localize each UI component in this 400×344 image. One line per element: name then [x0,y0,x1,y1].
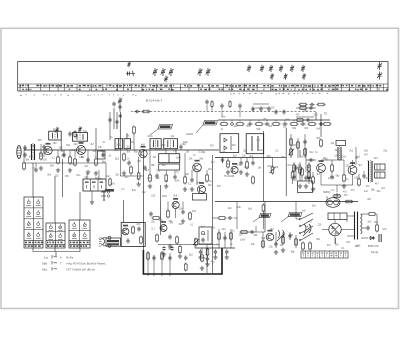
capacitor C79 [108,117,111,122]
svg-text:6k8: 6k8 [173,195,177,197]
ground [148,184,152,188]
resistor R41 [302,242,305,251]
stub [227,158,229,162]
capacitor C74 [149,211,152,216]
svg-text:10k: 10k [251,244,256,246]
capacitor C33 [190,177,193,182]
wire emitters [321,184,353,186]
svg-text:25u: 25u [377,191,382,193]
svg-text:8p2: 8p2 [115,158,120,160]
wire [347,215,355,217]
resistor R43 [320,139,323,148]
switch wafer arcs [303,224,311,236]
vol arrow [193,239,199,245]
svg-text:1n: 1n [221,129,224,131]
svg-text:5k6: 5k6 [162,165,166,167]
resistor R1 [40,152,43,161]
wire [306,159,316,161]
svg-text:68p: 68p [298,169,303,171]
wire right top [320,114,322,137]
svg-text:3n9: 3n9 [192,211,197,213]
capacitor C40 [282,122,287,125]
svg-text:150: 150 [53,143,58,145]
svg-text:4k7: 4k7 [358,165,362,167]
trimmer C13 [290,65,294,72]
transistor T10 [266,230,274,241]
wire [155,149,166,151]
capacitor C70 [294,165,297,170]
capacitor C71 [303,139,306,144]
svg-text:2n2: 2n2 [288,165,293,167]
capacitor C69 [366,225,369,230]
capacitor C56 [201,237,204,242]
resistor R76 [211,100,213,108]
stub [336,185,338,192]
stub [201,248,203,254]
resistor R31 [140,236,143,245]
svg-text:12k: 12k [211,228,216,230]
stub [302,120,304,122]
stub [206,105,208,112]
resistor R66 [218,232,221,241]
stub [74,150,76,157]
svg-text:CT/T TuAbNe bAT dRy air: CT/T TuAbNe bAT dRy air [66,269,95,272]
svg-text:8p2: 8p2 [189,254,194,256]
stub [355,160,357,165]
svg-text:0,1: 0,1 [341,248,345,250]
wire [236,202,238,230]
transistor pinout chart 3 [69,220,90,248]
svg-text:1n: 1n [346,179,349,181]
svg-text:12k: 12k [242,155,247,157]
stub [312,172,314,177]
svg-text:8p2: 8p2 [248,209,253,211]
stub [169,253,171,276]
stub [249,120,251,122]
transistor T2 AF117 [77,142,86,154]
wire stage3 down [142,150,144,250]
svg-text:8p2: 8p2 [162,145,167,147]
trimmer C7 [198,68,203,76]
capacitor C86 [112,101,115,106]
svg-text:2n2: 2n2 [244,167,249,169]
capacitor C23 [42,144,45,149]
legend row2 tick [52,261,57,265]
stub [24,145,26,150]
stub [182,202,184,210]
svg-text:12k: 12k [283,127,288,129]
stub [275,120,277,122]
svg-text:4k7: 4k7 [85,166,89,168]
svg-text:6k8: 6k8 [179,224,183,226]
wire volume feed [211,155,213,273]
stub [255,226,257,232]
trimmer C85 [118,97,122,104]
trimmer C17 [302,73,306,79]
svg-text:10k: 10k [169,222,174,224]
svg-text:4k7: 4k7 [375,183,379,185]
svg-text:47p: 47p [351,190,356,192]
resistor R38 [282,236,285,245]
svg-text:12k: 12k [186,152,191,154]
switch strip mid line [18,87,388,89]
stub [175,209,177,218]
stub [102,150,104,157]
svg-text:0,1: 0,1 [257,140,261,142]
wire [119,105,121,112]
resistor R26 [317,103,326,106]
svg-text:470: 470 [210,145,215,147]
svg-text:3n9: 3n9 [304,128,309,130]
transistor T1 AF116 [44,143,52,155]
trimmer C10 [260,65,264,72]
ground [205,262,209,266]
svg-text:10k: 10k [237,207,242,209]
capacitor C81 AGC [134,110,139,113]
svg-text:100n: 100n [176,158,182,160]
volume pot arrow [270,167,276,173]
capacitor C43 [259,106,262,111]
jack panel text [107,240,119,242]
resistor R6 [95,158,98,167]
transistor T6 [231,163,238,174]
svg-text:4k7: 4k7 [211,162,215,164]
switch wafer arcs 2 [277,230,284,241]
resistor R4 [23,162,26,171]
trimmer C87 [78,126,82,132]
capacitor C60 [225,249,228,254]
stub [95,150,97,157]
stub [223,120,225,122]
svg-text:2n2: 2n2 [125,177,130,179]
svg-text:3n9: 3n9 [302,210,307,212]
wire down [285,160,287,196]
svg-text:220: 220 [317,225,322,227]
svg-text:0,1: 0,1 [275,150,279,152]
svg-text:2n2: 2n2 [173,151,178,153]
stub [222,158,224,164]
voltage selector switch [299,213,313,241]
resistor R48 [345,200,354,203]
jack 4 symbol [99,244,111,248]
capacitor C34 [179,144,182,149]
diode detector box [98,151,106,159]
resistor R19 [255,123,264,126]
stub [218,229,220,248]
resistor R20 [272,123,281,126]
stub [367,160,369,161]
neutralizing network [193,194,207,201]
wire [326,196,328,202]
transistor T9 driver [160,221,167,231]
svg-text:3n9: 3n9 [29,156,34,158]
wire chain [297,138,299,158]
svg-text:10k: 10k [331,143,336,145]
stub [240,158,242,161]
resistor R14 [227,160,230,169]
svg-text:4k7: 4k7 [90,144,94,146]
svg-text:220: 220 [222,229,227,231]
stub [211,107,213,112]
svg-text:5k6: 5k6 [38,140,42,142]
svg-text:Yerlg. PO-M Onal. Bij ieOer Pa: Yerlg. PO-M Onal. Bij ieOer PaneeL [66,263,106,266]
svg-text:B250 C75: B250 C75 [368,245,379,248]
svg-text:1k: 1k [230,244,233,246]
capacitor C72 [292,174,295,179]
resistor R73 [262,204,265,213]
svg-text:39k: 39k [151,165,156,167]
svg-text:12k: 12k [126,136,131,138]
wire [109,112,111,140]
component symbol table [301,251,348,258]
IF transformer S2 [73,133,88,142]
padder pair C2 [126,71,135,76]
component value labels [25,108,387,264]
svg-text:6k8: 6k8 [254,235,258,237]
wire drive rail [321,159,344,161]
wire [113,108,115,129]
speaker terminal box 1 [375,164,386,170]
capacitor C42b [318,122,323,125]
wire [308,162,310,181]
wire filter out [103,191,105,199]
svg-text:4: 4 [99,244,101,248]
svg-text:4k7: 4k7 [270,229,274,231]
stub [119,139,121,150]
resistor R35 volume pot [195,238,198,247]
ground [68,168,72,172]
stub [343,160,345,175]
svg-text:2k2: 2k2 [234,126,238,128]
wire [160,185,162,235]
svg-text:150: 150 [354,178,359,180]
svg-text:470: 470 [274,167,279,169]
svg-text:8p2: 8p2 [233,155,238,157]
capacitor C39 [264,122,269,125]
wire [341,229,354,231]
resistor R33 [176,236,179,245]
wire [175,150,177,154]
capacitor C54 [168,234,171,239]
svg-text:100n: 100n [162,196,168,198]
driver transformer S6 [338,146,341,161]
svg-text:A: A [60,256,62,260]
wire osc feed [119,112,121,139]
svg-text:T5 AC125: T5 AC125 [224,175,235,178]
switch strip row2 contact labels [22,89,387,91]
wire [355,147,357,160]
stub [221,109,223,118]
trimmer C5 [169,68,174,76]
svg-text:220: 220 [314,114,319,116]
lower rail left [24,162,106,164]
pot arrow R56 [289,149,295,155]
capacitor C37 [251,160,254,165]
svg-text:150: 150 [43,159,48,161]
driver transformer label [336,141,346,146]
capacitor C52 [137,226,140,231]
svg-text:1k: 1k [165,181,168,183]
wire top link [253,103,269,105]
wire to legend [62,159,64,197]
pickup jack symbols [101,191,110,197]
stub [130,173,132,176]
capacitor C75 [152,255,155,260]
svg-text:4k7: 4k7 [153,157,157,159]
stub [352,174,354,185]
svg-text:12k: 12k [171,136,176,138]
wire [103,190,105,200]
DIN socket symbol [99,238,105,245]
svg-text:68p: 68p [371,189,376,191]
switch contact row1 [231,123,234,126]
ratio detector can [246,134,264,154]
FM IF transformer S3 [150,139,161,149]
resistor R29 [189,212,192,221]
capacitor C26 [86,157,89,162]
resistor R28 [167,210,170,219]
capacitor C55 [184,255,187,260]
mains transformer primary label [328,213,347,220]
stub [184,153,186,177]
resistor R25 [299,103,308,106]
stub [206,170,208,175]
stub [284,120,286,122]
ground [90,200,94,204]
oscillator coil L3 [115,139,123,149]
stub [87,157,89,163]
trimmer C1 [127,62,130,68]
svg-text:10k: 10k [98,147,103,149]
wire [255,107,270,109]
resistor R58 [304,148,307,157]
svg-text:470: 470 [366,186,371,188]
resistor R78 [229,100,231,108]
resistor R75 [201,254,204,263]
svg-text:4k7: 4k7 [327,245,331,247]
capacitor C27 [101,152,104,157]
svg-text:150: 150 [65,176,70,178]
svg-text:1n: 1n [315,152,318,154]
svg-text:25u: 25u [76,175,81,177]
capacitor C21 [23,145,26,150]
resistor R62 [152,217,161,220]
ground [164,184,168,188]
wire [361,237,368,239]
svg-text:0,1: 0,1 [151,229,155,231]
scale numbers row [20,94,137,96]
svg-text:3n9: 3n9 [156,170,161,172]
wire to tone [123,200,125,222]
capacitor C61 [274,241,277,246]
resistor R30 [132,226,135,235]
capacitor C77 [227,216,232,219]
svg-text:47p: 47p [331,177,336,179]
module label callout 3 [281,213,302,223]
svg-text:1n: 1n [103,142,106,144]
svg-text:25u: 25u [312,206,317,208]
capacitor C22 [23,152,26,157]
stub [40,144,42,150]
transistor pinout chart 1 [24,197,43,248]
resistor R13 [206,174,209,183]
svg-text:10k: 10k [258,168,263,170]
svg-text:1k: 1k [109,156,112,158]
mains entry block [298,181,313,193]
svg-text:2k2: 2k2 [367,199,371,201]
FM IF transformer S4 [164,139,178,149]
resistor R45 [343,174,346,183]
capacitor C36 [239,160,242,165]
svg-text:68p: 68p [336,176,341,178]
ground [225,255,229,259]
capacitor C90 [238,103,241,108]
strip notes row [230,93,328,95]
resistor R61 [308,164,311,173]
speaker terminal box 2 [375,172,386,178]
resistor R2 [57,156,60,165]
stub [320,172,322,185]
svg-text:220: 220 [147,178,152,180]
svg-text:470: 470 [217,186,222,188]
capacitor C67 [362,173,365,178]
wire mains in [295,202,297,220]
wire [160,202,162,225]
stub [262,232,264,248]
resistor R34 [185,263,188,272]
resistor R10 [149,174,152,183]
svg-text:2k2: 2k2 [208,169,212,171]
switch strip row1 contact labels [20,85,382,87]
svg-text:B1043A/1: B1043A/1 [146,99,163,103]
capacitor C89 [220,103,223,108]
svg-text:100n: 100n [341,157,347,159]
svg-text:2k2: 2k2 [349,151,353,153]
resistor R44 [331,164,334,173]
capacitor C24 [62,152,65,157]
discriminator transformer S5 [159,154,180,163]
oscillator coil L4 [124,139,131,149]
resistor R68 [323,123,332,126]
capacitor C88 [205,99,208,104]
svg-text:220: 220 [55,175,60,177]
ground [178,254,182,258]
stub [175,149,177,150]
dial assembly outline [18,62,388,91]
jack panel text2 [107,243,119,245]
capacitor C82 [127,160,130,165]
svg-text:2n2: 2n2 [364,191,369,193]
svg-text:100n: 100n [267,166,273,168]
capacitor C25 [34,167,37,172]
svg-text:8p2: 8p2 [261,238,266,240]
stub [149,149,151,175]
wire rail ext [272,157,286,159]
svg-text:10k: 10k [111,183,116,185]
wire down to bus [206,245,208,273]
svg-text:47p: 47p [343,192,348,194]
svg-text:25u: 25u [115,174,120,176]
resistor R36 [206,248,209,257]
svg-text:25u: 25u [30,145,35,147]
svg-text:68p: 68p [316,239,321,241]
legend row1 tick [52,255,57,259]
stub [167,202,169,212]
stub [331,171,333,174]
stub [191,170,193,177]
stub [23,150,25,163]
svg-text:D: D [325,112,328,116]
